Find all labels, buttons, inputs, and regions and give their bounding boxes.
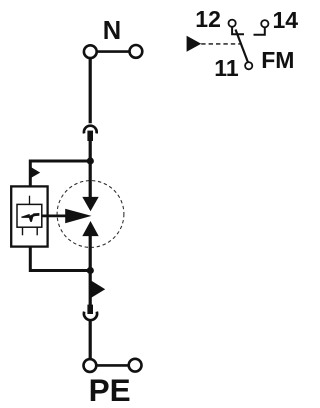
spark gap F1: dashed circle [57,181,124,248]
svg-text:14: 14 [273,7,299,33]
trigger line from sensing element [42,214,67,217]
spark gap F1: lower electrode arrow (up) [82,221,98,236]
FM pin 14 terminal circle [261,20,268,27]
FM actuator linkage (dashed) [201,43,242,45]
plug-in connection top: plug pin [87,131,93,141]
plug-in connection bottom: socket arc [84,312,97,321]
spark gap F1: upper electrode stem [89,161,92,198]
terminal N right circle [130,45,143,58]
node A: junction of branch to trigger circuit [87,157,94,164]
FM pin 12 terminal circle [229,20,236,27]
wire between N terminals [97,50,130,53]
node B: junction below spark gap [87,267,94,274]
wire between PE terminals [96,364,128,367]
sensing element box [17,204,42,227]
terminal N left circle [84,45,97,58]
spark gap F1: upper electrode arrow (down) [82,197,98,211]
FM actuator arrow [187,36,202,52]
wire branch from node A to trigger circuit U1 [30,161,90,186]
svg-text:11: 11 [214,55,239,81]
FM pin 14 fixed contact [254,27,265,35]
FM pin 11 terminal circle [245,62,252,69]
wire from trigger circuit U1 bottom to node B [30,247,90,271]
FM movable contact lever [236,30,248,63]
trigger circuit U1: outer enclosure [11,186,47,246]
terminal PE left circle [84,359,97,372]
sensing element bottom leads [22,227,24,235]
svg-text:N: N [103,17,121,45]
arrow marker on PE wire (plug direction) [91,281,105,298]
arrow marker on branch wire (plug direction) [31,167,40,178]
internal lead from enclosure top to sensing element [29,196,31,205]
wire plug pin down to node A [89,141,92,162]
svg-text:FM: FM [261,47,294,73]
terminal PE right circle [129,359,142,372]
flash (surge) symbol inside sensing element [21,214,30,218]
trigger arrow into spark gap [65,209,91,224]
spark gap F1: lower electrode stem [89,235,92,271]
wire plug-in connection down to PE terminal [89,320,92,360]
svg-text:PE: PE [89,372,131,408]
plug-in connection top: socket arc [84,126,97,134]
svg-text:12: 12 [195,6,221,32]
wire N terminal down to plug-in connection [89,58,92,123]
plug-in connection bottom: plug pin [87,305,93,314]
wire node B down to plug-in connection [89,271,92,306]
FM pin 12 fixed contact [232,27,244,35]
